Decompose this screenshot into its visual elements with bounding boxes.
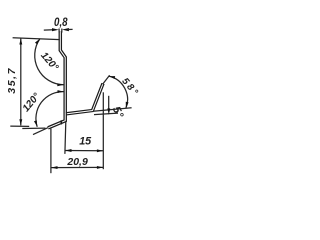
angle 120deg (lower) leg extension line — [33, 128, 48, 135]
svg-text:0,8: 0,8 — [54, 15, 68, 29]
svg-text:58°: 58° — [119, 76, 141, 99]
angle 58deg hook extension line — [103, 75, 110, 84]
angle 120deg (lower) arc — [36, 92, 64, 127]
profile main bent sheet (top tip, jog, vertical web, bottom-left leg) — [48, 31, 65, 128]
angle 5deg flange extension line — [93, 108, 132, 111]
angle 58deg arc — [109, 76, 128, 108]
angle 5deg vertical leader with down arrow — [107, 96, 110, 115]
angle 120deg (lower) horizontal reference ray — [22, 127, 45, 129]
svg-text:20,9: 20,9 — [66, 156, 88, 168]
angle 5deg horizontal reference line — [94, 113, 118, 115]
profile junction fold tick at web/leg/flange joint — [60, 120, 62, 124]
svg-text:5°: 5° — [110, 105, 126, 121]
dimension 0,8 dimension line with arrows — [44, 28, 73, 31]
dimension 0,8 extension lines at profile top — [59, 29, 62, 33]
angle 58deg arrowheads — [109, 76, 115, 79]
dimension 20,9 dimension line with arrows — [51, 166, 103, 169]
right shared extension line — [102, 92, 104, 169]
angle 120deg (upper) arrowheads — [35, 39, 40, 45]
angle 120deg (lower) arrowheads — [58, 90, 64, 93]
dimension 35,7 dimension line with outward arrows — [19, 38, 22, 125]
svg-text:15: 15 — [79, 136, 92, 148]
dimension 15 left extension line — [64, 122, 67, 154]
angle 120deg (upper) arc — [35, 39, 64, 85]
dimension 20,9 left extension line — [50, 129, 52, 174]
svg-text:120°: 120° — [21, 90, 43, 114]
svg-text:35,7: 35,7 — [6, 67, 18, 94]
svg-text:120°: 120° — [38, 50, 61, 74]
dimension 35,7 top extension line — [13, 38, 60, 40]
dimension 35,7 bottom extension line — [10, 125, 29, 127]
profile bottom-right flange and hook — [66, 84, 103, 114]
dimension 15 dimension line with arrows — [65, 149, 103, 152]
